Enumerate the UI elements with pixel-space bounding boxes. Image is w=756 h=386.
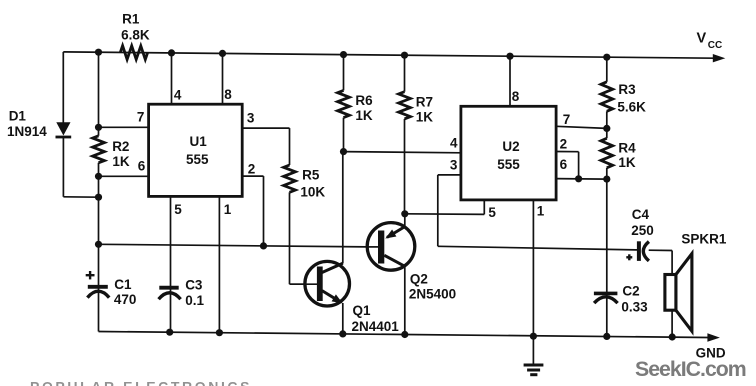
svg-text:U2: U2: [502, 139, 519, 154]
junction dot: pin7 node: [95, 124, 102, 131]
junction dot: D1 join: [95, 194, 102, 201]
svg-text:6: 6: [138, 159, 146, 174]
label GND: [696, 345, 726, 360]
pin number 4 (U1): [174, 88, 182, 103]
svg-text:SPKR1: SPKR1: [681, 231, 727, 246]
svg-text:2N4401: 2N4401: [352, 319, 400, 334]
wire: U2 pin7 out: [556, 126, 607, 128]
transistor Q1: [290, 261, 350, 306]
Vcc arrowhead: [713, 54, 726, 62]
label R4: [618, 140, 636, 170]
svg-text:1K: 1K: [618, 155, 636, 170]
label SPKR1: [681, 231, 727, 246]
svg-text:U1: U1: [190, 134, 208, 149]
pin number 3 (U2): [450, 157, 458, 172]
label C4: [631, 207, 654, 238]
pin number 2 (U2): [560, 136, 568, 151]
wire: U2 pin2 out: [556, 152, 579, 179]
svg-text:R5: R5: [302, 168, 320, 183]
U2 pin8 stub: [509, 56, 511, 106]
resistor R4: [601, 128, 613, 179]
svg-text:1N914: 1N914: [7, 124, 47, 139]
svg-text:2: 2: [248, 162, 256, 177]
U1 pin8 stub: [222, 53, 224, 104]
label R1: [121, 11, 150, 42]
capacitor C1: [87, 287, 109, 298]
junction dot: rail/Q1 emitter: [339, 330, 346, 337]
wire: Q1 collector up to U2 pin4 node: [342, 152, 344, 264]
svg-text:R3: R3: [618, 82, 636, 97]
svg-text:1: 1: [224, 202, 232, 217]
wire: pin6 node down to C2 and ground: [606, 179, 608, 336]
svg-text:2: 2: [560, 136, 568, 151]
wire: R2 column lower: [98, 163, 100, 332]
svg-text:C3: C3: [185, 278, 203, 293]
junction dot: rail / R2 column: [95, 49, 102, 56]
pin number 5 (U2): [488, 205, 496, 220]
IC U2 555 box: [461, 106, 556, 200]
svg-text:Q2: Q2: [410, 271, 428, 286]
svg-text:6: 6: [560, 157, 568, 172]
junction dot: rail / U1 pin4: [168, 49, 175, 56]
svg-text:1K: 1K: [112, 154, 130, 169]
pin number 8 (U1): [224, 87, 232, 102]
wire: Vcc top rail: [63, 52, 714, 58]
svg-text:1K: 1K: [416, 109, 434, 124]
svg-text:3: 3: [247, 110, 255, 125]
label Q1: [352, 303, 400, 334]
wire: node to U2 pin4: [344, 152, 461, 153]
label C3: [185, 278, 204, 309]
label C2: [621, 283, 648, 314]
wire: U1 pin5 / C3 column: [170, 196, 172, 332]
op... U1 pin4 stub: [171, 53, 173, 104]
svg-text:555: 555: [186, 152, 209, 167]
junction dot: pin2/middle rail: [260, 242, 267, 249]
svg-text:5.6K: 5.6K: [617, 100, 646, 115]
transistor Q2: [367, 223, 415, 271]
junction dot: pin2/pin6 tie: [575, 175, 582, 182]
junction dot: R3/R4/pin7 node: [603, 125, 610, 132]
wire: U1 pin 7 stub: [99, 126, 149, 128]
svg-text:POPULAR ELECTRONICS: POPULAR ELECTRONICS: [30, 379, 252, 386]
junction dot: rail / R7: [401, 52, 408, 59]
pin number 5 (U1): [174, 202, 182, 217]
ground symbol: [524, 336, 544, 375]
pin number 1 (U1): [224, 202, 232, 217]
svg-text:3: 3: [450, 157, 458, 172]
wire: U2 pin6 out: [556, 178, 607, 181]
junction dot: rail/C3: [166, 329, 173, 336]
junction dot: middle rail left end: [95, 241, 102, 248]
svg-text:4: 4: [450, 136, 458, 151]
wire: D1 cathode down and over to R2 column: [63, 137, 98, 197]
svg-text:1: 1: [537, 203, 545, 218]
svg-text:D1: D1: [9, 108, 27, 123]
wire: speaker to ground rail: [671, 310, 673, 337]
junction dot: rail / R6: [340, 51, 347, 58]
wire: Q2 emitter up to R7/pin5 node: [404, 214, 406, 227]
junction dot: rail / R3: [603, 54, 610, 61]
resistor R1: [120, 46, 147, 60]
resistor R2: [93, 136, 105, 163]
svg-text:R6: R6: [355, 93, 373, 108]
GND arrowhead: [707, 333, 720, 341]
label R5: [300, 168, 325, 200]
pin number 3 (U1): [247, 110, 255, 125]
svg-text:0.33: 0.33: [621, 299, 648, 314]
watermark SeekIC.com: [635, 357, 746, 381]
wire: ground bottom rail: [99, 332, 708, 338]
svg-text:5: 5: [174, 202, 182, 217]
svg-text:470: 470: [114, 292, 137, 307]
pin number 7 (U2): [563, 112, 571, 127]
wire: C4 to speaker: [649, 250, 672, 274]
svg-text:8: 8: [512, 89, 520, 104]
junction dot: rail / U2 pin8: [506, 53, 513, 60]
pin number 2 (U1): [248, 162, 256, 177]
pin number 7 (U1): [137, 110, 145, 125]
wire: U1 pin3 out: [242, 128, 289, 165]
wire: Q1 emitter down to ground rail: [342, 303, 344, 334]
svg-text:10K: 10K: [300, 184, 325, 199]
C4 plus sign: [626, 254, 632, 260]
resistor R7: [399, 55, 411, 214]
resistor R5: [284, 165, 296, 192]
svg-text:C4: C4: [632, 207, 650, 222]
wire: R5 down to Q1 base: [290, 192, 318, 284]
diode D1: [56, 122, 72, 137]
label U2: [497, 139, 520, 172]
svg-text:5: 5: [488, 205, 496, 220]
label U1: [186, 134, 209, 167]
svg-text:250: 250: [631, 223, 654, 238]
junction dot: rail/Q2 collector: [401, 331, 408, 338]
resistor R3: [601, 57, 613, 128]
junction dot: rail / U1 pin8: [219, 50, 226, 57]
junction dot: rail/speaker: [669, 333, 676, 340]
svg-text:R7: R7: [416, 94, 433, 109]
pin number 6 (U2): [560, 157, 568, 172]
svg-text:555: 555: [497, 157, 520, 172]
svg-text:6.8K: 6.8K: [121, 28, 150, 43]
wire: U1 pin 6 stub: [99, 175, 149, 177]
svg-text:R1: R1: [122, 11, 140, 26]
wire: middle rail (U1 pin2 to Q2 base): [99, 244, 368, 247]
svg-text:7: 7: [137, 110, 145, 125]
svg-text:V: V: [697, 31, 707, 47]
pin number 4 (U2): [450, 136, 458, 151]
junction dot: rail/U1 pin1: [216, 329, 223, 336]
resistor R6: [338, 55, 350, 152]
label R3: [617, 82, 646, 115]
label Q2: [409, 271, 456, 301]
svg-text:4: 4: [174, 88, 182, 103]
label C1: [114, 277, 137, 307]
junction dot: pin6/R4 node: [603, 176, 610, 183]
junction dot: rail/U2 pin1: [530, 333, 537, 340]
wire: U1 pin1 column: [218, 196, 220, 332]
label D1: [7, 108, 47, 139]
junction dot: pin6 node: [95, 173, 102, 180]
label R7: [416, 94, 434, 124]
label Vcc: [697, 31, 723, 52]
junction dot: rail/C2: [603, 333, 610, 340]
svg-text:1K: 1K: [355, 108, 373, 123]
junction dot: R6/Q1 collector/U2 pin4: [340, 148, 347, 155]
wire: U2 pin3 out to C4: [438, 175, 637, 250]
svg-text:C2: C2: [622, 283, 639, 298]
label R2: [112, 139, 130, 169]
wire: R2 column upper: [98, 52, 100, 136]
svg-text:0.1: 0.1: [185, 293, 204, 308]
caption POPULAR ELECTRONICS (clipped): [30, 379, 252, 386]
svg-text:R2: R2: [112, 139, 129, 154]
label R6: [355, 93, 373, 123]
wire: U2 pin1 column: [532, 200, 534, 336]
junction dot: R7/Q2 emitter/U2 pin5: [401, 210, 408, 217]
pin number 6 (U1): [138, 159, 146, 174]
wire: Q2 collector down to ground rail: [404, 266, 406, 336]
svg-text:R4: R4: [618, 140, 636, 155]
wire: node to U2 pin5: [405, 200, 485, 214]
pin number 1 (U2): [537, 203, 545, 218]
C1 plus sign: [86, 271, 95, 279]
capacitor C2: [594, 293, 618, 303]
capacitor C4: [639, 241, 649, 261]
svg-text:7: 7: [563, 112, 571, 127]
svg-text:8: 8: [224, 87, 232, 102]
wire: left branch down from rail: [62, 52, 64, 123]
svg-text:Q1: Q1: [353, 303, 372, 318]
svg-text:SeekIC.com: SeekIC.com: [635, 357, 746, 381]
svg-text:CC: CC: [708, 40, 722, 51]
pin number 8 (U2): [512, 89, 520, 104]
wire: U1 pin2 out: [242, 176, 263, 246]
capacitor C3: [159, 288, 181, 300]
svg-text:2N5400: 2N5400: [409, 287, 456, 302]
svg-text:C1: C1: [114, 277, 132, 292]
IC U1 555 box: [149, 104, 243, 196]
speaker SPKR1: [665, 254, 692, 332]
